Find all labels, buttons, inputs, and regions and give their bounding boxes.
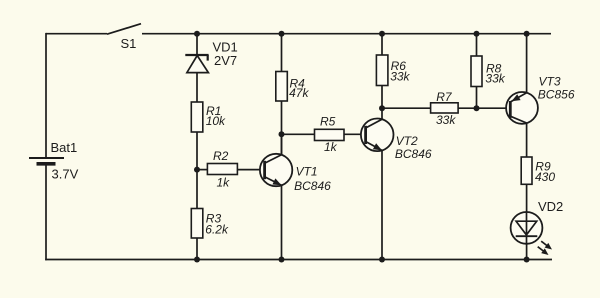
node junction top rail / VT3 emitter (524, 31, 530, 37)
svg-text:47k: 47k (289, 86, 309, 100)
node junction top rail / R8 (474, 31, 480, 37)
wire VD2 to bottom rail (526, 244, 528, 260)
wire R9 to VD2 (526, 184, 528, 212)
wire VD1 to R1 (196, 73, 198, 102)
svg-text:VT1: VT1 (296, 165, 318, 179)
svg-text:430: 430 (535, 170, 555, 184)
wire left rail lower (45, 164, 47, 260)
node junction top rail / R4 (279, 31, 285, 37)
node junction top rail / R6 (379, 31, 385, 37)
svg-text:33k: 33k (485, 72, 505, 86)
svg-text:BC846: BC846 (395, 147, 432, 161)
svg-text:R5: R5 (320, 115, 336, 129)
wire top rail to VT3 emitter (526, 34, 528, 93)
wire R7 to VT3 base (458, 107, 510, 109)
svg-text:1k: 1k (217, 176, 231, 190)
wire R1 to node (196, 132, 198, 209)
resistor R4 47k (276, 72, 310, 102)
node junction VT2 collector / R7 (379, 105, 385, 111)
node junction R8 / R7 wire (474, 105, 480, 111)
svg-text:R7: R7 (436, 90, 453, 104)
svg-text:Bat1: Bat1 (51, 140, 78, 155)
wire node to R7 (382, 107, 431, 109)
transistor VT3 BC856 (506, 75, 575, 124)
wire top rail to R6 (381, 34, 383, 55)
transistor VT2 BC846 (361, 119, 432, 162)
wire top rail to VD1 (196, 34, 198, 56)
LED VD2 emission arrow 2 (538, 247, 549, 255)
wire node to R5 (282, 133, 316, 135)
node junction R3 / bottom rail (194, 257, 200, 263)
resistor R3 6.2k (191, 209, 229, 239)
svg-text:2V7: 2V7 (214, 53, 237, 68)
resistor R8 33k (471, 56, 506, 87)
LED VD2 emission arrow 1 (541, 241, 552, 249)
wire VT1 emitter down (281, 185, 283, 259)
battery Bat1 3.7V (29, 140, 79, 182)
resistor R1 10k (191, 102, 226, 132)
node junction R4/R5/VT1 collector (279, 131, 285, 137)
svg-text:R2: R2 (213, 149, 229, 163)
svg-text:VD2: VD2 (538, 199, 563, 214)
svg-text:33k: 33k (436, 113, 456, 127)
wire R4 to node (281, 101, 283, 154)
wire VT3 collector to R9 (526, 123, 528, 157)
zener diode VD1 2V7 (185, 40, 237, 73)
svg-text:BC846: BC846 (294, 179, 331, 193)
wire top rail to R4 (281, 34, 283, 72)
wire node to R2 (197, 169, 208, 171)
node junction top rail / VD1 (194, 31, 200, 37)
svg-text:3.7V: 3.7V (52, 167, 79, 182)
node junction VT2 emitter / bottom rail (379, 257, 385, 263)
wire top rail to R8 (476, 34, 478, 56)
svg-text:1k: 1k (324, 140, 338, 154)
svg-text:10k: 10k (206, 114, 226, 128)
resistor R7 33k (431, 90, 459, 127)
wire VT2 collector up to R6 (381, 86, 383, 120)
svg-text:6.2k: 6.2k (205, 222, 229, 236)
wire R2 to VT1 base (237, 169, 265, 171)
wire R8 to R7 node (476, 87, 478, 109)
resistor R2 1k (207, 149, 237, 190)
transistor VT1 BC846 (260, 154, 331, 193)
resistor R5 1k (315, 115, 345, 154)
wire R5 to VT2 base (344, 133, 366, 135)
wire left rail upper (45, 33, 47, 158)
svg-text:33k: 33k (390, 70, 410, 84)
node junction R1/R2/R3 (194, 167, 200, 173)
node junction VT1 emitter / bottom rail (279, 257, 285, 263)
svg-text:BC856: BC856 (538, 88, 575, 102)
LED VD2 (511, 199, 564, 244)
switch S1 (107, 24, 141, 51)
wire R3 to bottom rail (196, 238, 198, 260)
resistor R6 33k (376, 55, 410, 86)
svg-text:VT2: VT2 (396, 134, 418, 148)
wire top rail right segment (142, 33, 551, 35)
wire bottom rail (45, 259, 552, 261)
wire VT1 collector up (281, 134, 283, 154)
svg-text:S1: S1 (121, 36, 137, 51)
wire top rail left segment (46, 33, 107, 35)
resistor R9 430 (521, 157, 555, 184)
node junction VD2 / bottom rail (524, 257, 530, 263)
wire VT2 emitter down (381, 150, 383, 259)
svg-text:VT3: VT3 (539, 75, 561, 89)
